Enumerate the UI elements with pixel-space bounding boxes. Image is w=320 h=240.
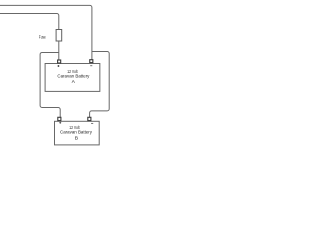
plus sign battery A — [57, 65, 59, 67]
wire W2 from left edge to fuse — [0, 14, 59, 30]
fuse F1 — [56, 30, 62, 42]
minus sign battery B — [91, 122, 93, 124]
wire fuse to battery A positive — [58, 41, 60, 60]
wire branch junction to battery B positive — [40, 52, 60, 117]
svg-text:B: B — [75, 136, 78, 142]
minus sign battery A — [90, 65, 92, 67]
svg-text:Caravan Battery: Caravan Battery — [57, 73, 90, 78]
wire W1 from left edge to battery A negative — [0, 5, 92, 59]
wire branch battery A negative to battery B negative — [90, 52, 110, 118]
svg-text:Caravan Battery: Caravan Battery — [60, 130, 93, 135]
terminal battery B negative — [88, 117, 91, 120]
battery A box — [45, 64, 100, 92]
svg-text:Fuse: Fuse — [39, 35, 47, 40]
terminal battery B positive — [58, 117, 61, 120]
terminal battery A positive — [58, 60, 61, 63]
plus sign battery B — [59, 122, 61, 124]
battery B box — [55, 121, 100, 145]
terminal battery A negative — [90, 60, 93, 63]
